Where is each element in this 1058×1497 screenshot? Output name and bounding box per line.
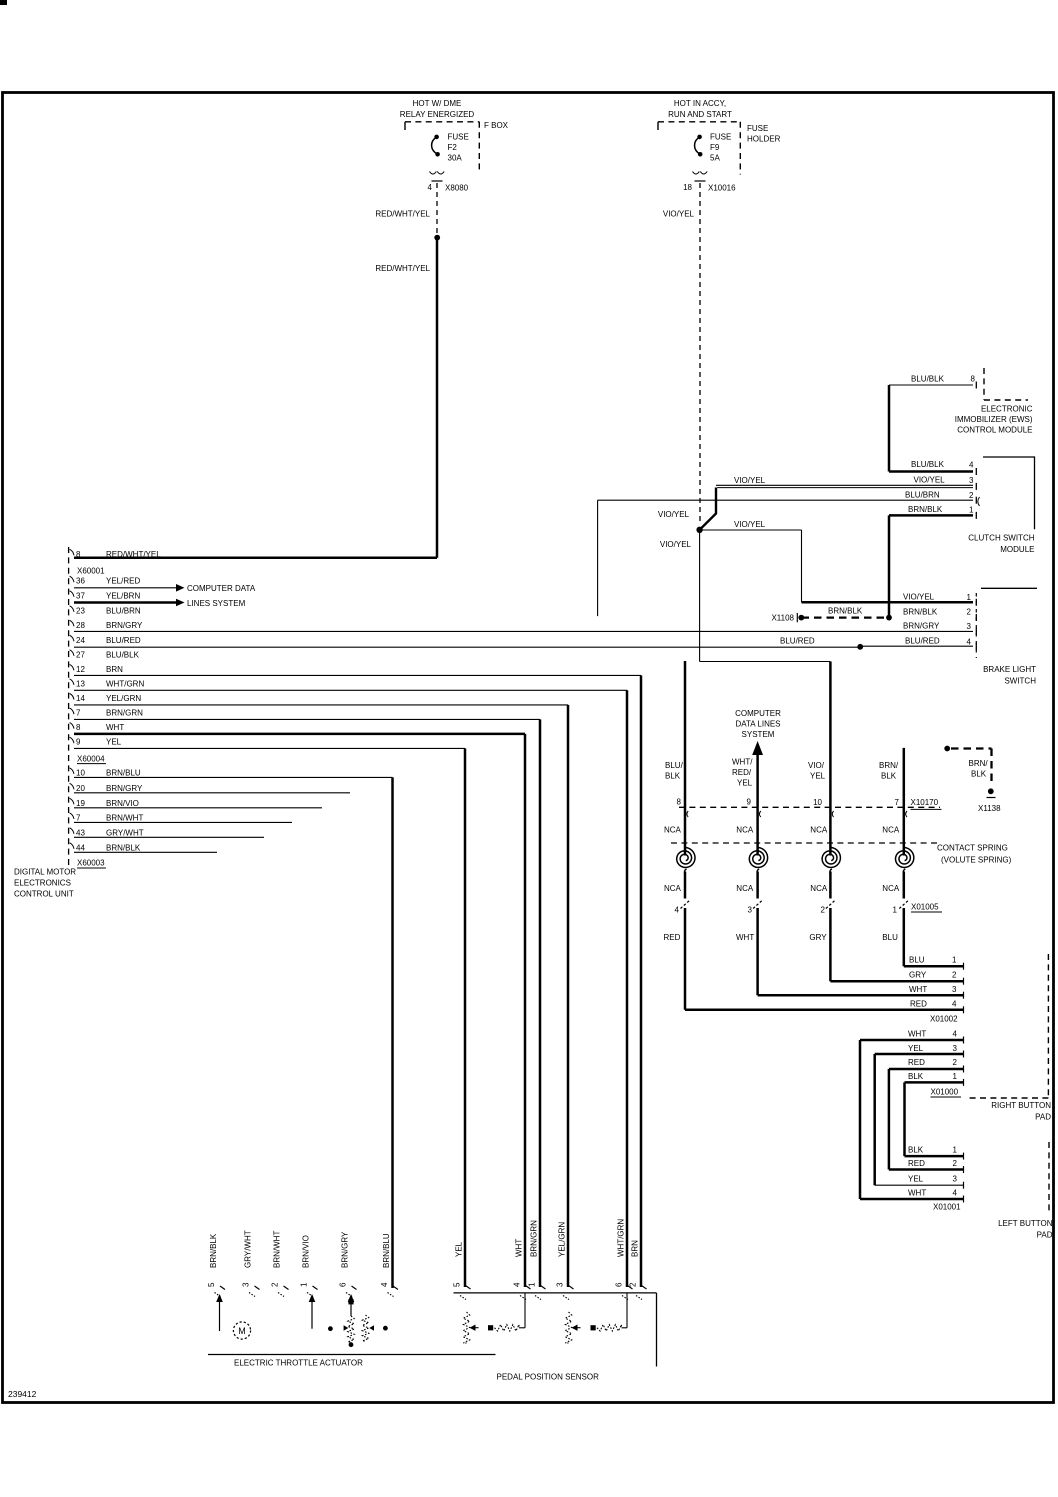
wire GRY X01002 pin 2 row xyxy=(830,980,963,983)
wire BLK X01000 pin 1 row xyxy=(905,1081,964,1084)
svg-text:10: 10 xyxy=(76,768,85,777)
throttle pin 2 connector xyxy=(284,1286,289,1290)
terminal dot left xyxy=(328,1326,333,1331)
DME pin 24 BLU/RED label xyxy=(70,635,74,641)
DME pin 28 BRN/GRY label xyxy=(70,620,74,626)
motor M xyxy=(233,1322,250,1339)
wire WHT riser to pedal pin 4 xyxy=(524,734,527,1287)
svg-text:BRN/GRY: BRN/GRY xyxy=(341,1231,350,1268)
pedal wiper lead 1 xyxy=(524,1294,526,1328)
resistor track 2 throttle xyxy=(362,1315,368,1341)
brake module dashed boundary xyxy=(975,593,977,658)
wiper lead wire pin 1 xyxy=(309,1294,316,1302)
svg-text:3: 3 xyxy=(953,1044,958,1053)
wiper arrow right-pointing xyxy=(344,1325,349,1330)
connector X10170 dashed line xyxy=(679,806,940,808)
svg-text:FUSE: FUSE xyxy=(710,133,731,142)
svg-text:BLU/: BLU/ xyxy=(665,761,684,770)
svg-text:F2: F2 xyxy=(448,143,458,152)
svg-text:LEFT BUTTON: LEFT BUTTON xyxy=(998,1219,1053,1228)
DME pin 14 YEL/GRN label xyxy=(70,694,74,700)
svg-text:BLK: BLK xyxy=(908,1146,924,1155)
svg-text:IMMOBILIZER (EWS): IMMOBILIZER (EWS) xyxy=(955,415,1033,424)
volute spring 1 xyxy=(677,847,695,867)
wire DME pin 8 RED/WHT/YEL row xyxy=(74,557,437,560)
svg-text:2: 2 xyxy=(969,491,974,500)
svg-text:BRAKE LIGHT: BRAKE LIGHT xyxy=(983,665,1036,674)
wire BRN riser to pedal pin 2 xyxy=(640,675,643,1287)
splice dot BLU/RED xyxy=(857,644,863,650)
svg-text:7: 7 xyxy=(895,798,900,807)
DME pin 27 BLU/BLK label xyxy=(70,650,74,656)
svg-text:4: 4 xyxy=(969,461,974,470)
pedal wiper arrow 2 xyxy=(572,1325,578,1331)
svg-text:4: 4 xyxy=(953,1030,958,1039)
scan speck top-left xyxy=(0,0,7,5)
svg-text:CLUTCH SWITCH: CLUTCH SWITCH xyxy=(968,534,1034,543)
pedal pin 5 connector xyxy=(466,1286,471,1290)
svg-text:4: 4 xyxy=(380,1282,389,1287)
svg-text:3: 3 xyxy=(952,985,957,994)
wire BLU/BLK spring wire 8 xyxy=(684,661,687,856)
svg-text:3: 3 xyxy=(967,622,972,631)
svg-text:BLK: BLK xyxy=(881,772,897,781)
svg-text:239412: 239412 xyxy=(8,1389,37,1399)
wire RED/WHT/YEL solid down to DME pin 8 row xyxy=(436,239,439,558)
svg-text:GRY/WHT: GRY/WHT xyxy=(244,1230,253,1268)
resistor track 1 throttle xyxy=(348,1316,354,1342)
wire BRN/GRY DME pin 20 stub xyxy=(74,792,350,794)
junction splice dot on RED/WHT/YEL xyxy=(434,235,440,241)
svg-text:RUN AND START: RUN AND START xyxy=(668,110,732,119)
wire RED X01002 pin 4 row xyxy=(685,1009,963,1012)
svg-text:ELECTRIC THROTTLE ACTUATOR: ELECTRIC THROTTLE ACTUATOR xyxy=(234,1359,363,1368)
svg-text:BRN: BRN xyxy=(631,1240,640,1257)
svg-text:X01001: X01001 xyxy=(933,1203,961,1212)
pedal resistor track 1 xyxy=(463,1312,469,1343)
svg-text:14: 14 xyxy=(76,694,85,703)
svg-text:9: 9 xyxy=(76,738,81,747)
svg-text:9: 9 xyxy=(747,798,752,807)
wire VIO/YEL horizontal to contact spring wire 10 xyxy=(700,661,831,663)
svg-text:CONTROL UNIT: CONTROL UNIT xyxy=(14,890,74,899)
svg-text:10: 10 xyxy=(813,798,822,807)
svg-text:NCA: NCA xyxy=(882,884,900,893)
wire YEL DME pin 9 row xyxy=(74,747,465,749)
svg-text:DIGITAL MOTOR: DIGITAL MOTOR xyxy=(14,868,76,877)
wire BLU lower segment xyxy=(903,908,906,966)
svg-text:ELECTRONICS: ELECTRONICS xyxy=(14,879,71,888)
fuse F2 30A xyxy=(434,135,439,140)
wire YEL riser to pedal pin 5 xyxy=(464,748,467,1287)
wire BRN/GRN riser to pedal pin 1 xyxy=(539,719,542,1287)
svg-text:2: 2 xyxy=(967,608,972,617)
pedal wiper arrow 1 xyxy=(470,1325,476,1331)
svg-text:X01002: X01002 xyxy=(930,1015,958,1024)
svg-text:8: 8 xyxy=(971,375,976,384)
DME pin 8 WHT label xyxy=(70,723,74,729)
wire YEL/RED arrow to computer data lines xyxy=(74,587,176,589)
svg-text:X60001: X60001 xyxy=(77,567,105,576)
svg-text:BRN/GRY: BRN/GRY xyxy=(106,784,143,793)
wire YEL X01000 pin 3 row xyxy=(875,1053,963,1056)
wire BRN/BLU DME pin 10 row xyxy=(74,776,393,778)
svg-text:SWITCH: SWITCH xyxy=(1004,677,1036,686)
svg-text:BRN/VIO: BRN/VIO xyxy=(302,1235,311,1268)
svg-text:GRY: GRY xyxy=(909,971,927,980)
svg-text:3: 3 xyxy=(969,476,974,485)
pedal pin 6 connector xyxy=(628,1286,633,1290)
volute spring 3 xyxy=(822,847,840,867)
svg-text:BRN/BLK: BRN/BLK xyxy=(903,608,938,617)
DME pin 12 BRN label xyxy=(70,664,74,670)
DME pin 23 BLU/BRN label xyxy=(70,606,74,612)
svg-text:27: 27 xyxy=(76,650,85,659)
svg-text:2: 2 xyxy=(821,906,826,915)
svg-text:RED: RED xyxy=(908,1058,925,1067)
svg-text:WHT: WHT xyxy=(909,985,927,994)
DME pin 19 BRN/VIO label xyxy=(70,798,74,804)
wire WHT left riser xyxy=(859,1040,862,1199)
pedal position sensor boundary xyxy=(454,1292,657,1294)
svg-text:1: 1 xyxy=(893,906,898,915)
brake light switch bracket xyxy=(981,587,1037,589)
svg-text:BLU/RED: BLU/RED xyxy=(905,637,940,646)
node VIO/YEL junction xyxy=(696,527,702,533)
wire BRN/WHT DME pin 7 stub xyxy=(74,821,292,823)
pedal wiper lead 2 xyxy=(626,1294,628,1328)
wire BLU/RED right segment xyxy=(862,645,973,647)
svg-text:FUSE: FUSE xyxy=(448,133,469,142)
svg-text:RED/: RED/ xyxy=(732,768,752,777)
svg-text:1: 1 xyxy=(528,1282,537,1287)
throttle pin 5 connector xyxy=(220,1286,225,1290)
svg-text:3: 3 xyxy=(748,906,753,915)
wire BLU/BLK riser EWS to clutch pin 4 xyxy=(888,385,891,472)
svg-text:RED: RED xyxy=(910,999,927,1008)
pin 8 EWS tick xyxy=(975,382,977,389)
throttle pin 4 connector xyxy=(393,1286,398,1290)
wire BRN DME pin 12 row xyxy=(74,674,641,676)
svg-text:X8080: X8080 xyxy=(445,184,469,193)
wire BRN/GRN DME pin 7 row xyxy=(74,718,540,720)
svg-text:X60004: X60004 xyxy=(77,754,105,763)
DME pin 7 BRN/WHT label xyxy=(70,813,74,819)
wire RED X01001 pin 2 row xyxy=(889,1168,963,1171)
wire WHT lower segment xyxy=(756,908,759,995)
wire YEL left riser xyxy=(873,1054,876,1185)
connector X1138 stub xyxy=(944,746,950,752)
svg-text:M: M xyxy=(238,1326,246,1336)
svg-text:BRN/GRN: BRN/GRN xyxy=(530,1220,539,1257)
svg-text:WHT: WHT xyxy=(515,1239,524,1257)
svg-text:FUSE: FUSE xyxy=(747,124,768,133)
pedal pin 4 connector xyxy=(526,1286,531,1290)
DME pin 37 YEL/BRN label xyxy=(70,591,74,597)
wire BLU/BRN clutch pin 2 row xyxy=(598,499,973,501)
svg-text:VIO/YEL: VIO/YEL xyxy=(734,476,766,485)
wire BLU/RED brake pin 4 row from DME pin 24 xyxy=(74,646,859,648)
svg-text:7: 7 xyxy=(76,709,81,718)
svg-text:BLU: BLU xyxy=(909,956,925,965)
svg-text:YEL: YEL xyxy=(908,1175,924,1184)
throttle pin 6 connector xyxy=(352,1286,357,1290)
svg-text:BLU/BRN: BLU/BRN xyxy=(106,606,141,615)
svg-text:WHT/GRN: WHT/GRN xyxy=(617,1219,626,1257)
svg-text:GRY/WHT: GRY/WHT xyxy=(106,828,144,837)
DME pin 8 RED/WHT/YEL label xyxy=(70,549,74,555)
svg-text:VIO/YEL: VIO/YEL xyxy=(663,210,695,219)
throttle pin 3 connector xyxy=(255,1286,260,1290)
wire YEL/GRN DME pin 14 row xyxy=(74,704,568,706)
connector X8080 xyxy=(430,172,445,175)
svg-text:NCA: NCA xyxy=(882,826,900,835)
svg-text:DATA LINES: DATA LINES xyxy=(735,720,780,729)
svg-text:BRN/: BRN/ xyxy=(879,761,899,770)
wire WHT/GRN DME pin 13 row xyxy=(74,689,627,691)
svg-text:RED/WHT/YEL: RED/WHT/YEL xyxy=(375,264,430,273)
pedal wiper zigzag 1 xyxy=(495,1325,520,1331)
wire WHT X01001 pin 4 row xyxy=(860,1198,963,1201)
svg-text:BRN/BLK: BRN/BLK xyxy=(106,843,141,852)
right button pad dashed boundary xyxy=(1047,954,1049,1098)
svg-text:BLU: BLU xyxy=(882,933,898,942)
svg-text:28: 28 xyxy=(76,621,85,630)
svg-text:PAD: PAD xyxy=(1035,1113,1051,1122)
wire BRN/VIO DME pin 19 stub xyxy=(74,807,322,809)
svg-text:MODULE: MODULE xyxy=(1000,545,1034,554)
svg-text:30A: 30A xyxy=(448,154,463,163)
svg-text:VIO/: VIO/ xyxy=(808,761,825,770)
digital motor electronics control unit boundary xyxy=(68,547,70,867)
svg-text:ELECTRONIC: ELECTRONIC xyxy=(981,405,1033,414)
svg-text:VIO/YEL: VIO/YEL xyxy=(658,510,690,519)
svg-text:WHT/GRN: WHT/GRN xyxy=(106,679,144,688)
svg-text:RED: RED xyxy=(664,933,681,942)
wire BRN/BLK clutch pin 1 row xyxy=(889,514,973,517)
svg-text:1: 1 xyxy=(952,956,957,965)
wire BLK left riser xyxy=(903,1082,906,1156)
svg-text:2: 2 xyxy=(629,1282,638,1287)
connector X1108 dashed link xyxy=(886,615,892,621)
motor lead wire pin 5 xyxy=(216,1294,223,1302)
svg-text:VIO/YEL: VIO/YEL xyxy=(903,593,935,602)
svg-text:VIO/YEL: VIO/YEL xyxy=(734,520,766,529)
svg-text:NCA: NCA xyxy=(810,826,828,835)
svg-text:X10016: X10016 xyxy=(708,184,736,193)
pedal pin 2 connector xyxy=(642,1286,647,1290)
wire WHT/RED/YEL up arrow xyxy=(752,741,763,755)
wire BLU/BRN stub down to DME row 23 level xyxy=(597,500,599,616)
svg-text:19: 19 xyxy=(76,799,85,808)
pedal wiper zigzag 2 xyxy=(597,1325,622,1331)
wire RED left riser xyxy=(888,1069,891,1170)
wire VIO/YEL dashed from fuse F9 down xyxy=(699,183,701,524)
svg-text:YEL/GRN: YEL/GRN xyxy=(106,694,141,703)
svg-text:HOT IN ACCY,: HOT IN ACCY, xyxy=(674,99,726,108)
svg-text:6: 6 xyxy=(339,1282,348,1287)
wire RED lower segment xyxy=(684,908,687,1010)
svg-text:BLU/BRN: BLU/BRN xyxy=(905,491,940,500)
pedal pin 1 connector xyxy=(541,1286,546,1290)
DME pin 44 BRN/BLK label xyxy=(70,843,74,849)
svg-text:WHT: WHT xyxy=(908,1189,926,1198)
pedal pin 3 connector xyxy=(569,1286,574,1290)
svg-text:43: 43 xyxy=(76,828,85,837)
svg-text:23: 23 xyxy=(76,606,85,615)
wire VIO/YEL right branch to brake pin 1 xyxy=(700,529,802,531)
svg-text:BRN/BLK: BRN/BLK xyxy=(209,1233,218,1268)
svg-text:BRN/BLK: BRN/BLK xyxy=(828,607,863,616)
svg-text:3: 3 xyxy=(242,1282,251,1287)
svg-text:X1108: X1108 xyxy=(771,614,794,623)
wire WHT DME pin 8 row xyxy=(74,733,525,736)
svg-text:1: 1 xyxy=(953,1146,958,1155)
svg-text:BLU/BLK: BLU/BLK xyxy=(106,650,140,659)
clutch switch module bracket xyxy=(983,457,1035,529)
pin 2 clutch tick and arc xyxy=(975,497,977,504)
svg-text:HOT W/ DME: HOT W/ DME xyxy=(413,99,462,108)
svg-text:X01000: X01000 xyxy=(931,1088,959,1097)
wire BLK X01001 pin 1 row xyxy=(905,1155,964,1158)
svg-text:X1138: X1138 xyxy=(978,804,1001,813)
svg-text:X60003: X60003 xyxy=(77,859,105,868)
svg-text:YEL: YEL xyxy=(810,772,826,781)
wire WHT/GRN riser to pedal pin 6 xyxy=(626,690,629,1287)
svg-text:WHT: WHT xyxy=(908,1030,926,1039)
svg-text:NCA: NCA xyxy=(664,884,682,893)
wire GRY/WHT DME pin 43 stub xyxy=(74,836,264,838)
svg-text:WHT/: WHT/ xyxy=(732,758,753,767)
svg-text:COMPUTER: COMPUTER xyxy=(735,709,781,718)
svg-text:BRN/GRN: BRN/GRN xyxy=(106,709,143,718)
svg-text:4: 4 xyxy=(675,906,680,915)
terminal dot bottom of track xyxy=(349,1342,354,1347)
svg-text:BRN/GRY: BRN/GRY xyxy=(903,622,940,631)
connector X01005 pin marks xyxy=(681,900,691,909)
svg-text:12: 12 xyxy=(76,665,85,674)
svg-text:YEL: YEL xyxy=(737,779,753,788)
svg-text:COMPUTER DATA: COMPUTER DATA xyxy=(187,584,256,593)
DME pin 7 BRN/GRN label xyxy=(70,708,74,714)
wire BLU/BLK EWS pin 8 row xyxy=(889,384,973,386)
svg-text:2: 2 xyxy=(953,1058,958,1067)
wire GRY lower segment xyxy=(829,908,832,981)
svg-text:YEL/BRN: YEL/BRN xyxy=(106,591,140,600)
volute spring 4 xyxy=(896,847,914,867)
wire RED X01000 pin 2 row xyxy=(889,1068,963,1071)
pedal wiper square 2 xyxy=(591,1325,596,1330)
wire BRN/BLK spring wire 7 xyxy=(903,748,906,856)
svg-text:BLK: BLK xyxy=(971,770,987,779)
svg-text:18: 18 xyxy=(683,183,692,192)
F box dashed outline xyxy=(405,121,479,123)
svg-text:2: 2 xyxy=(271,1282,280,1287)
svg-text:5: 5 xyxy=(207,1282,216,1287)
wire VIO/YEL diagonal+riser to clutch pin 3 xyxy=(700,488,716,530)
wire YEL X01001 pin 3 row xyxy=(875,1184,963,1186)
svg-text:1: 1 xyxy=(969,506,974,515)
svg-text:BLU/RED: BLU/RED xyxy=(780,637,815,646)
svg-text:X10170: X10170 xyxy=(911,798,939,807)
svg-text:BRN: BRN xyxy=(106,665,123,674)
pedal resistor track 2 xyxy=(565,1312,571,1343)
svg-text:YEL: YEL xyxy=(908,1044,924,1053)
svg-text:BRN/: BRN/ xyxy=(969,759,989,768)
svg-text:RED: RED xyxy=(908,1159,925,1168)
svg-text:5A: 5A xyxy=(710,154,720,163)
wire BRN/BLK DME pin 44 stub xyxy=(74,851,217,853)
svg-text:BLU/BLK: BLU/BLK xyxy=(911,460,945,469)
svg-text:BLU/BLK: BLU/BLK xyxy=(911,375,945,384)
wire BLU X01002 pin 1 row xyxy=(904,965,963,968)
svg-text:GRY: GRY xyxy=(809,933,827,942)
svg-text:PEDAL POSITION SENSOR: PEDAL POSITION SENSOR xyxy=(497,1373,600,1382)
volute spring 2 xyxy=(749,847,767,867)
svg-text:YEL: YEL xyxy=(455,1241,464,1257)
wire WHT X01000 pin 4 row xyxy=(860,1039,963,1042)
svg-text:44: 44 xyxy=(76,843,85,852)
svg-text:BRN/WHT: BRN/WHT xyxy=(106,813,143,822)
svg-text:BRN/WHT: BRN/WHT xyxy=(273,1231,282,1268)
contact spring dashed boundary xyxy=(671,842,941,844)
svg-text:BLK: BLK xyxy=(908,1072,924,1081)
svg-text:CONTROL MODULE: CONTROL MODULE xyxy=(957,426,1032,435)
svg-text:4: 4 xyxy=(953,1189,958,1198)
svg-text:13: 13 xyxy=(76,679,85,688)
svg-text:NCA: NCA xyxy=(810,884,828,893)
wire BRN/GRY brake pin 3 row from DME pin 28 xyxy=(74,630,973,632)
svg-text:2: 2 xyxy=(953,1159,958,1168)
wire BRN/BLU riser to throttle pin 4 xyxy=(391,777,394,1288)
terminal dot right xyxy=(383,1326,388,1331)
svg-text:RIGHT BUTTON: RIGHT BUTTON xyxy=(991,1101,1051,1110)
svg-text:BRN/BLU: BRN/BLU xyxy=(382,1233,391,1268)
electric throttle actuator underline xyxy=(208,1354,496,1356)
DME pin 20 BRN/GRY label xyxy=(70,783,74,789)
svg-text:(VOLUTE SPRING): (VOLUTE SPRING) xyxy=(941,856,1012,865)
svg-text:F9: F9 xyxy=(710,143,720,152)
electronic immobilizer EWS control module boundary xyxy=(983,368,985,400)
wiper arrow left-pointing xyxy=(369,1325,374,1330)
svg-text:36: 36 xyxy=(76,577,85,586)
wire YEL/BRN arrow to computer data lines xyxy=(74,601,176,604)
svg-text:4: 4 xyxy=(952,999,957,1008)
wire WHT X01002 pin 3 row xyxy=(758,994,963,997)
svg-text:20: 20 xyxy=(76,784,85,793)
pedal wiper square 1 xyxy=(488,1325,493,1330)
svg-text:37: 37 xyxy=(76,591,85,600)
svg-text:4: 4 xyxy=(428,183,433,192)
svg-text:VIO/YEL: VIO/YEL xyxy=(914,476,946,485)
svg-text:YEL: YEL xyxy=(106,738,122,747)
throttle pin 1 connector xyxy=(313,1286,318,1290)
svg-text:BRN/BLK: BRN/BLK xyxy=(908,505,943,514)
svg-text:VIO/YEL: VIO/YEL xyxy=(660,540,692,549)
connector X10016 xyxy=(693,172,708,175)
svg-text:HOLDER: HOLDER xyxy=(747,135,781,144)
svg-text:YEL/GRN: YEL/GRN xyxy=(558,1222,567,1257)
svg-text:CONTACT SPRING: CONTACT SPRING xyxy=(937,844,1008,853)
svg-text:5: 5 xyxy=(453,1282,462,1287)
svg-text:2: 2 xyxy=(952,971,957,980)
DME pin 13 WHT/GRN label xyxy=(70,679,74,685)
wire RED/WHT/YEL dashed segment below X8080 xyxy=(436,183,438,234)
svg-text:NCA: NCA xyxy=(736,884,754,893)
svg-text:4: 4 xyxy=(513,1282,522,1287)
svg-text:3: 3 xyxy=(556,1282,565,1287)
svg-text:7: 7 xyxy=(76,813,81,822)
